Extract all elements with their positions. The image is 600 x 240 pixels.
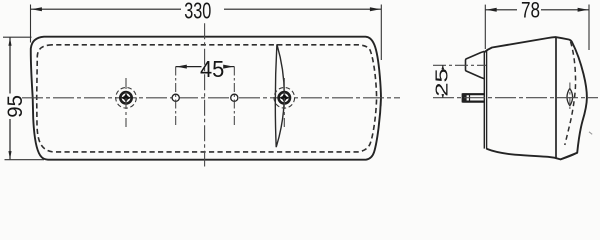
dimension 78 line (485, 9, 517, 11)
centerline / extension through small hole right (233, 67, 235, 127)
inner dashed outline (front view, hidden edge) (37, 45, 377, 152)
housing outline (side view) (484, 37, 587, 159)
arrow bottom of 25 (441, 94, 444, 98)
mounting screw symbol right (stud hole) (274, 78, 295, 127)
eye vertical centerline (569, 83, 571, 112)
svg-text:78: 78 (521, 0, 540, 23)
lamp body outline (front view) (31, 37, 381, 160)
svg-text:45: 45 (200, 57, 224, 83)
stray scan dash (589, 132, 592, 135)
dimension 95 line (9, 37, 11, 93)
arrow top of 25 (441, 65, 444, 69)
hidden dashed edge (side view front) (565, 42, 576, 146)
arrow top of 95 (8, 38, 11, 46)
mounting screw symbol left (stud hole) (116, 78, 137, 127)
svg-text:25: 25 (432, 68, 452, 96)
extension line bottom (95) (5, 159, 45, 161)
arrow right of 45 (223, 65, 234, 69)
main centerline (side view) (433, 97, 598, 99)
arrow left of 78 (486, 8, 497, 12)
bump centerline (side view) (433, 64, 486, 66)
extension line left (78) (484, 5, 486, 49)
small hole right (231, 94, 238, 101)
svg-text:330: 330 (184, 0, 211, 24)
dimension 45 line (176, 66, 202, 68)
centerline / extension through small hole left (175, 67, 177, 127)
mounting plate (back face) (483, 52, 485, 149)
threaded stud (side view) (462, 93, 485, 102)
side marker lens tip (eye) (567, 88, 573, 105)
arrow right of 330 (370, 7, 381, 11)
small hole left (172, 94, 179, 101)
extension line top (95) (3, 36, 32, 38)
lens divider vesica (front view right) (275, 44, 284, 147)
extension line left (330) (30, 5, 32, 43)
upper bump (license lens, side view) (466, 51, 485, 78)
extension line right (78) (588, 5, 590, 51)
arrow left of 330 (31, 7, 42, 11)
bottom right corner wedge (561, 153, 578, 160)
vertical centerline of lamp (204, 23, 206, 166)
arrow left of 45 (176, 65, 187, 69)
arrow bottom of 95 (8, 151, 11, 159)
horizontal centerline (front view) (22, 97, 400, 99)
lens parting line (side view) (555, 37, 557, 158)
extension line right (330) (380, 5, 382, 61)
arrow right of 78 (578, 8, 589, 12)
svg-text:95: 95 (4, 95, 27, 118)
dimension 330 line (31, 8, 182, 10)
dimension 25 line (442, 65, 444, 69)
